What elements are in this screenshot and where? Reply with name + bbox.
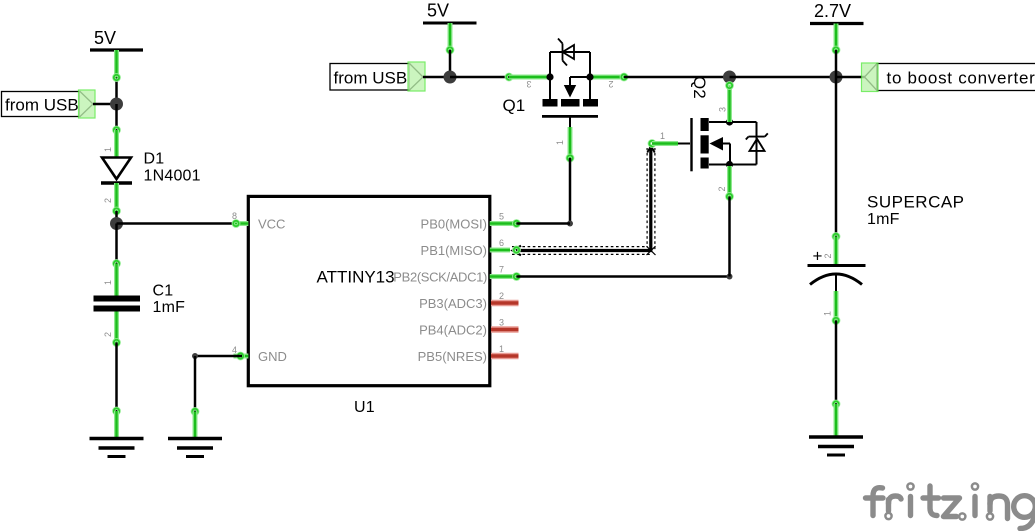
- Q1 body diode loop: [549, 52, 551, 77]
- ground symbol 2 (under U1 GND): [168, 439, 222, 457]
- svg-text:2: 2: [823, 254, 833, 259]
- Q1 channel pads: [543, 99, 558, 107]
- svg-text:6: 6: [499, 238, 504, 248]
- svg-text:1: 1: [103, 280, 113, 285]
- svg-text:2: 2: [103, 332, 113, 337]
- Q2 gate pin 1 lead: [649, 141, 654, 146]
- wire Q1 pin 2 to junction D: [624, 76, 730, 79]
- svg-text:PB0(MOSI): PB0(MOSI): [421, 217, 487, 232]
- ground symbol 3 (under supercap): [809, 437, 863, 455]
- net label "from USB" (middle): [330, 62, 425, 91]
- diode D1 1N4001: [101, 130, 132, 211]
- pin 1 PB5(NRES) of U1 (unconnected, red): [418, 344, 519, 364]
- wire supercap to ground 3: [833, 318, 838, 436]
- capacitor SUPERCAP 1mF (polarized): [808, 237, 866, 321]
- wire D1 cathode to junction B: [114, 208, 119, 223]
- wire 2.7V to junction E: [833, 24, 838, 78]
- svg-text:Q1: Q1: [503, 96, 526, 115]
- svg-text:5V: 5V: [427, 1, 449, 21]
- Q2 drain connection: [709, 121, 757, 123]
- svg-text:PB3(ADC3): PB3(ADC3): [419, 296, 487, 311]
- svg-text:to boost converter: to boost converter: [887, 69, 1035, 88]
- label SUPERCAP 1mF: [867, 193, 965, 229]
- svg-text:1: 1: [499, 344, 504, 354]
- Q1 gate bar: [542, 115, 598, 118]
- svg-text:3: 3: [526, 79, 531, 89]
- label C1 1mF: [153, 283, 186, 317]
- svg-text:3: 3: [499, 317, 504, 327]
- svg-text:2: 2: [717, 187, 727, 192]
- pin 4 GND of U1: [232, 345, 287, 364]
- pin 5 PB0(MOSI) of U1: [421, 211, 520, 231]
- svg-text:2: 2: [103, 198, 113, 203]
- pin 3 PB4(ADC2) of U1 (unconnected, red): [419, 317, 518, 337]
- svg-text:PB4(ADC2): PB4(ADC2): [419, 323, 487, 338]
- svg-text:4: 4: [232, 345, 237, 355]
- svg-text:U1: U1: [354, 399, 375, 416]
- wire junction E down to supercap: [833, 77, 838, 239]
- wire junction E to boost label: [836, 76, 865, 79]
- svg-text:1: 1: [823, 311, 833, 316]
- svg-text:+: +: [813, 247, 823, 266]
- pin 2 PB3(ADC3) of U1 (unconnected, red): [419, 291, 518, 311]
- net label "to boost converter": [862, 63, 1035, 92]
- Q2 substrate arrow: [710, 137, 724, 151]
- Q1 pin 3 lead: [509, 75, 548, 80]
- wire junction B down to C1: [114, 224, 119, 267]
- svg-text:PB1(MISO): PB1(MISO): [421, 243, 487, 258]
- svg-text:Q2: Q2: [690, 76, 709, 99]
- Q1 source/drain connections down to pads: [549, 77, 551, 99]
- Q1 pin 2 lead: [592, 75, 624, 80]
- Q2 drain pin 3 lead: [727, 86, 732, 123]
- transistor Q2 (N-MOSFET): [649, 83, 768, 199]
- svg-text:1mF: 1mF: [867, 211, 900, 228]
- Q2 body diode loop: [756, 122, 758, 165]
- wire 5V to junction A: [114, 50, 119, 104]
- svg-text:VCC: VCC: [258, 217, 285, 232]
- junction C (5V / from USB / Q1): [444, 71, 457, 84]
- IC U1 ATTINY13 body: [248, 196, 489, 385]
- wire from USB middle to junction C: [423, 76, 450, 79]
- wire junction B to U1 VCC: [117, 222, 237, 225]
- Q2 gate bar: [690, 118, 692, 171]
- wire junction A to D1 anode: [114, 104, 119, 133]
- Q1 internal junction dots: [546, 73, 553, 80]
- svg-text:from USB: from USB: [334, 69, 408, 88]
- svg-text:ATTINY13: ATTINY13: [317, 268, 395, 287]
- svg-text:5: 5: [499, 211, 504, 221]
- capacitor C1 1mF: [94, 264, 141, 343]
- power symbol 5V (left): [90, 28, 143, 50]
- svg-text:2: 2: [499, 291, 504, 301]
- svg-text:GND: GND: [258, 349, 287, 364]
- svg-text:2: 2: [608, 79, 613, 89]
- junction B (D1 / VCC / C1): [110, 217, 123, 230]
- svg-text:PB2(SCK/ADC1): PB2(SCK/ADC1): [393, 270, 487, 285]
- power symbol 5V (middle): [423, 1, 477, 24]
- Q1 gate pin 1 lead: [569, 117, 571, 128]
- svg-text:SUPERCAP: SUPERCAP: [867, 193, 965, 212]
- svg-text:D1: D1: [144, 151, 165, 168]
- junction E (2.7V / boost / supercap): [830, 71, 843, 84]
- svg-text:1mF: 1mF: [153, 299, 186, 316]
- wire PB1 to Q2 gate (selected, dashed outline): [510, 146, 656, 255]
- fritzing logo: [866, 486, 1035, 529]
- pin 8 VCC of U1: [232, 211, 285, 232]
- transistor Q1 (P-MOSFET): [509, 39, 627, 159]
- svg-text:from USB: from USB: [5, 96, 79, 115]
- wire C1 to ground 1: [114, 340, 119, 437]
- wire junction D to junction E: [730, 76, 837, 79]
- Q1 substrate arrow: [570, 76, 590, 78]
- svg-text:C1: C1: [153, 283, 174, 300]
- svg-text:8: 8: [232, 211, 237, 221]
- svg-text:1: 1: [555, 140, 565, 145]
- svg-text:7: 7: [499, 264, 504, 274]
- junction A (5V / from USB / D1): [110, 98, 123, 111]
- svg-text:PB5(NRES): PB5(NRES): [418, 349, 487, 364]
- wire from USB label to junction A: [93, 103, 117, 106]
- junction D (Q1 / Q2 drain / rail): [723, 71, 736, 84]
- label D1 1N4001: [144, 151, 201, 185]
- svg-text:1: 1: [103, 147, 113, 152]
- wire U1 GND pin to ground 2: [192, 353, 242, 437]
- power symbol 2.7V: [810, 1, 864, 24]
- svg-text:1N4001: 1N4001: [144, 168, 201, 185]
- svg-text:5V: 5V: [94, 28, 116, 48]
- pin 6 PB1(MISO) of U1: [421, 238, 520, 258]
- net label "from USB" (left): [2, 90, 96, 118]
- wire 5V middle to junction C: [447, 23, 452, 77]
- pin 7 PB2(SCK/ADC1) of U1: [393, 264, 519, 284]
- wire PB2 to Q2 source: [517, 197, 733, 280]
- svg-text:3: 3: [718, 107, 728, 112]
- Q2 source connection: [709, 164, 757, 166]
- ground symbol 1 (under C1): [90, 439, 144, 457]
- svg-text:2.7V: 2.7V: [814, 1, 851, 21]
- Q2 channel pads: [701, 118, 709, 131]
- svg-text:1: 1: [660, 131, 665, 141]
- wire junction C to Q1 pin 3: [450, 74, 512, 79]
- Q2 source pin 2 lead: [727, 166, 732, 197]
- wire Q1 gate down to PB0 wire: [517, 155, 574, 226]
